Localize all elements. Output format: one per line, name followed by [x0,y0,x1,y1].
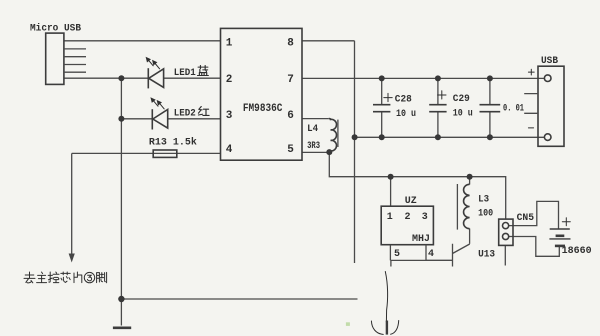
svg-text:LED1: LED1 [174,68,196,79]
svg-text:R13 1.5k: R13 1.5k [149,137,197,149]
svg-text:UZ: UZ [405,196,417,207]
svg-text:C28: C28 [395,95,412,106]
svg-text:USB: USB [541,56,558,67]
svg-text:18660: 18660 [562,246,592,257]
svg-text:4: 4 [226,144,233,156]
svg-text:C29: C29 [453,94,470,105]
svg-text:L4: L4 [307,124,318,135]
svg-text:U13: U13 [478,250,495,261]
svg-text:0. 01: 0. 01 [503,104,524,115]
svg-text:8: 8 [287,37,294,49]
svg-text:1: 1 [226,37,233,49]
svg-text:L3: L3 [478,195,489,206]
svg-text:2: 2 [226,74,233,86]
svg-text:10 u: 10 u [453,108,473,119]
svg-text:FM9836C: FM9836C [243,103,283,115]
svg-text:3R3: 3R3 [307,141,320,152]
svg-text:MHJ: MHJ [412,234,430,245]
svg-text:LED2: LED2 [174,109,196,120]
svg-text:7: 7 [287,74,294,86]
svg-text:CN5: CN5 [517,213,535,224]
svg-text:5: 5 [287,144,294,156]
svg-text:100: 100 [478,209,493,220]
svg-text:10 u: 10 u [396,109,416,120]
svg-text:6: 6 [287,110,294,122]
svg-text:5: 5 [394,249,400,260]
svg-text:2: 2 [405,212,411,223]
svg-text:Micro USB: Micro USB [30,23,82,35]
svg-text:4: 4 [428,249,434,260]
svg-text:3: 3 [422,212,428,223]
svg-text:3: 3 [226,110,233,122]
svg-text:1: 1 [387,212,393,223]
